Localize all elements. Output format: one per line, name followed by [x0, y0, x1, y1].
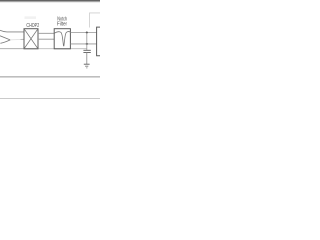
top border	[0, 1, 100, 2]
chip outline (light gray, cut off at top right)	[90, 13, 101, 28]
amplifier A1 output tip	[0, 36, 10, 44]
capacitor CL plates	[83, 50, 90, 52]
wire: filter output top to ADC	[70, 32, 96, 34]
wire: bottom rail (left segment)	[0, 48, 24, 50]
svg-text:CHOP2: CHOP2	[26, 23, 39, 29]
ADC box (cut off at right edge)	[97, 27, 100, 56]
wire: capacitor to ground	[86, 53, 88, 65]
junction dot top node	[86, 31, 88, 33]
wire: filter output bottom to ADC	[70, 43, 96, 45]
wire: amp output to chopper CHOP2 (faint)	[10, 39, 20, 41]
separator line	[0, 76, 100, 78]
junction dot bottom node	[86, 43, 88, 45]
svg-text:Filter: Filter	[57, 22, 67, 28]
wire: amp output stub at chopper	[21, 38, 25, 40]
chopper CHOP2 box	[24, 29, 38, 49]
notch filter response curve	[54, 32, 70, 46]
wire: bottom rail (right segment)	[24, 48, 87, 50]
ground	[84, 64, 90, 68]
wire: chopper to filter (bottom)	[38, 38, 54, 40]
chopper X diagonals	[24, 29, 38, 49]
wire: upper path into chopper (bends at left edge)	[0, 30, 24, 32]
faint ghost label above chopper	[25, 16, 37, 19]
wire: chopper to filter (top)	[38, 32, 54, 34]
notch filter box	[54, 29, 70, 49]
bottom faint line	[0, 97, 100, 99]
wire: vertical junction to capacitor	[86, 33, 88, 51]
